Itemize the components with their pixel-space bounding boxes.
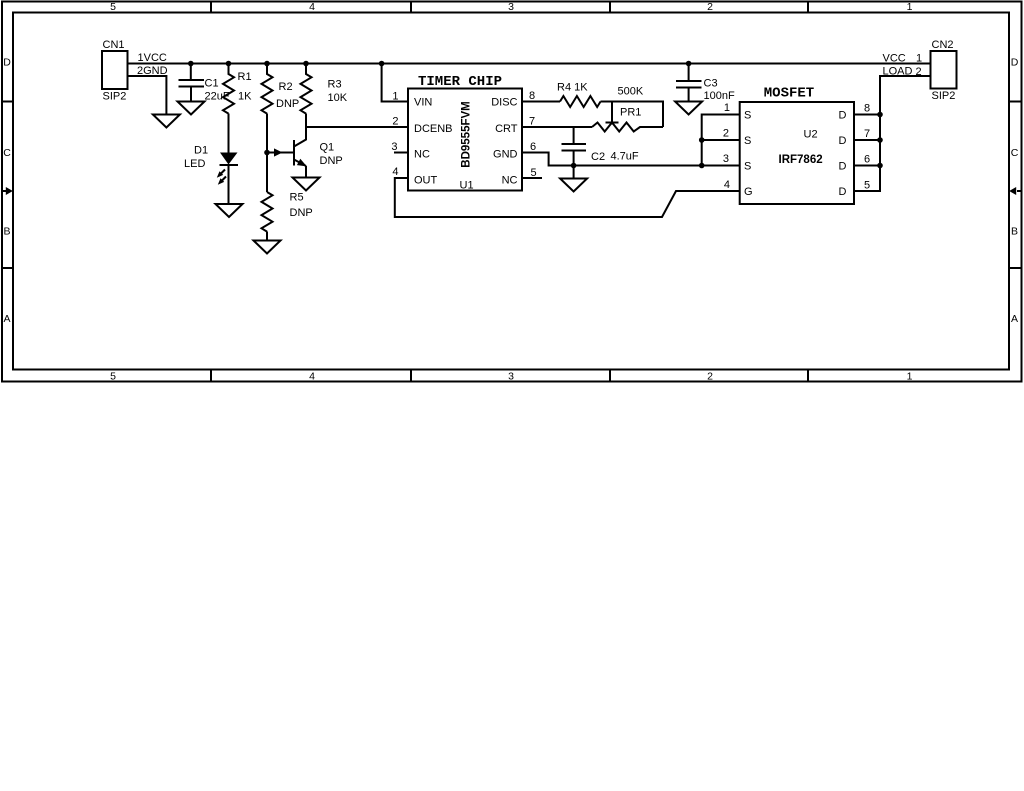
svg-text:1: 1 xyxy=(916,53,922,65)
svg-text:TIMER CHIP: TIMER CHIP xyxy=(418,74,502,90)
svg-text:D: D xyxy=(839,110,847,122)
svg-text:2: 2 xyxy=(707,1,713,13)
junction VCC / C3 xyxy=(686,61,692,67)
svg-text:BD9555FVM: BD9555FVM xyxy=(461,101,473,167)
svg-text:3: 3 xyxy=(723,153,729,165)
svg-text:D1: D1 xyxy=(194,145,208,157)
wire VCC rail xyxy=(128,63,931,65)
svg-text:B: B xyxy=(1011,226,1018,238)
svg-text:1: 1 xyxy=(907,371,913,383)
svg-text:2: 2 xyxy=(916,66,922,78)
wire source net to U2 xyxy=(574,165,702,167)
svg-text:C: C xyxy=(3,147,11,159)
junction node Q1 base xyxy=(264,150,270,156)
svg-text:1: 1 xyxy=(392,91,398,103)
svg-text:4: 4 xyxy=(724,179,730,191)
wire U1 OUT to U2 gate xyxy=(395,178,740,217)
svg-text:MOSFET: MOSFET xyxy=(764,86,814,102)
svg-text:5: 5 xyxy=(110,371,116,383)
svg-text:1VCC: 1VCC xyxy=(138,52,167,64)
wire R4 to PR1 top rail xyxy=(601,102,664,128)
svg-text:VCC: VCC xyxy=(883,53,906,65)
wire VCC to U1 pin 1 VIN xyxy=(382,64,408,102)
ground at C1 xyxy=(178,102,205,115)
junction source bus pin 3 xyxy=(699,163,705,169)
resistor R2 xyxy=(262,64,273,114)
svg-text:B: B xyxy=(3,226,10,238)
svg-text:DNP: DNP xyxy=(320,155,343,167)
capacitor C2 xyxy=(562,127,587,166)
connector CN2 xyxy=(931,39,957,102)
svg-text:A: A xyxy=(1011,313,1018,325)
svg-text:U1: U1 xyxy=(460,180,474,192)
ground GND at CN1 xyxy=(153,115,180,128)
wire U2 pin 6 stub xyxy=(854,165,880,167)
svg-text:VIN: VIN xyxy=(414,97,432,109)
IC U2 MOSFET box xyxy=(740,102,854,204)
wire R5 to ground xyxy=(266,232,268,241)
capacitor C1 xyxy=(179,64,205,102)
ground at Q1 emitter xyxy=(293,178,320,191)
svg-text:R4 1K: R4 1K xyxy=(557,82,588,94)
svg-text:Q1: Q1 xyxy=(320,142,335,154)
svg-text:DISC: DISC xyxy=(491,97,517,109)
svg-text:R1: R1 xyxy=(238,71,252,83)
svg-text:22uF: 22uF xyxy=(205,91,230,103)
junction source bus pin 2 xyxy=(699,137,705,143)
svg-text:3: 3 xyxy=(508,1,514,13)
wire U2 source bus xyxy=(702,115,740,166)
svg-text:6: 6 xyxy=(530,141,536,153)
svg-text:D: D xyxy=(839,161,847,173)
ground at D1 xyxy=(216,204,243,217)
svg-text:4: 4 xyxy=(392,166,398,178)
svg-text:C1: C1 xyxy=(205,78,219,90)
connector CN1 xyxy=(102,39,128,103)
svg-text:D: D xyxy=(839,135,847,147)
resistor R4 xyxy=(560,96,601,107)
svg-text:5: 5 xyxy=(864,180,870,192)
svg-text:DNP: DNP xyxy=(276,98,299,110)
svg-text:LED: LED xyxy=(184,158,205,170)
wire base node down to R5 xyxy=(266,153,268,193)
junction drain bus pin 8 xyxy=(877,112,883,118)
svg-text:SIP2: SIP2 xyxy=(932,90,956,102)
svg-text:S: S xyxy=(744,110,751,122)
wire R3 / Q1 collector to U1 DCENB xyxy=(306,114,408,128)
svg-text:3: 3 xyxy=(508,371,514,383)
junction node C2 / GND net xyxy=(571,163,577,169)
junction VCC / U1 VIN xyxy=(379,61,385,67)
IC U1 timer chip box xyxy=(408,89,522,191)
junction VCC / R2 xyxy=(264,61,270,67)
svg-text:GND: GND xyxy=(493,149,518,161)
wire LOAD to CN2 pin 2 xyxy=(880,76,931,115)
svg-text:NC: NC xyxy=(502,175,518,187)
svg-text:4: 4 xyxy=(309,1,315,13)
wire U1 CRT to PR1 xyxy=(522,126,592,128)
junction VCC / C1 xyxy=(188,61,194,67)
svg-text:OUT: OUT xyxy=(414,175,438,187)
svg-text:DNP: DNP xyxy=(290,207,313,219)
transistor Q1 xyxy=(267,127,307,178)
svg-text:1: 1 xyxy=(724,102,730,114)
wire R1 to D1 xyxy=(228,114,230,153)
svg-text:NC: NC xyxy=(414,149,430,161)
svg-text:R2: R2 xyxy=(279,81,293,93)
U1 pin 5 NC stub xyxy=(522,177,542,179)
ground at R5 xyxy=(254,241,281,254)
svg-text:G: G xyxy=(744,186,753,198)
junction VCC / R1 xyxy=(226,61,232,67)
U1 pin 3 NC stub xyxy=(394,152,408,154)
svg-text:SIP2: SIP2 xyxy=(103,91,127,103)
svg-text:IRF7862: IRF7862 xyxy=(779,154,823,166)
resistor R1 xyxy=(223,64,234,114)
junction drain bus pin 6 xyxy=(877,163,883,169)
svg-text:S: S xyxy=(744,135,751,147)
wire U1 GND to source node xyxy=(522,153,574,166)
svg-text:U2: U2 xyxy=(804,129,818,141)
wire U1 DISC to R4 xyxy=(522,101,560,103)
svg-text:A: A xyxy=(3,313,10,325)
svg-text:10K: 10K xyxy=(328,92,348,104)
svg-text:LOAD: LOAD xyxy=(883,66,913,78)
svg-text:CN2: CN2 xyxy=(932,39,954,51)
svg-text:5: 5 xyxy=(110,1,116,13)
svg-text:7: 7 xyxy=(864,128,870,140)
wire U2 drain bus xyxy=(854,115,880,192)
svg-text:500K: 500K xyxy=(618,86,644,98)
svg-text:6: 6 xyxy=(864,154,870,166)
LED D1 xyxy=(217,153,238,185)
svg-text:3: 3 xyxy=(391,141,397,153)
ground at C3 xyxy=(675,102,702,115)
svg-text:CRT: CRT xyxy=(495,123,518,135)
svg-text:1K: 1K xyxy=(238,91,252,103)
junction VCC / R3 xyxy=(303,61,309,67)
svg-text:4: 4 xyxy=(309,371,315,383)
svg-text:C: C xyxy=(1011,147,1019,159)
svg-text:100nF: 100nF xyxy=(704,90,735,102)
svg-text:1: 1 xyxy=(907,1,913,13)
svg-text:2: 2 xyxy=(723,128,729,140)
svg-text:C2: C2 xyxy=(591,151,605,163)
svg-text:2: 2 xyxy=(392,116,398,128)
svg-text:8: 8 xyxy=(864,103,870,115)
svg-text:D: D xyxy=(839,186,847,198)
wire R2 to Q1 base node xyxy=(266,114,268,153)
svg-text:D: D xyxy=(3,57,11,69)
svg-text:PR1: PR1 xyxy=(620,107,641,119)
svg-text:D: D xyxy=(1011,57,1019,69)
svg-text:C3: C3 xyxy=(704,78,718,90)
capacitor C3 xyxy=(676,64,702,102)
wire CN1 pin 2 to ground xyxy=(128,76,167,115)
wire U2 pin 7 stub xyxy=(854,139,880,141)
svg-text:R3: R3 xyxy=(328,79,342,91)
potentiometer PR1 xyxy=(592,102,663,132)
wire D1 to ground xyxy=(228,165,230,204)
resistor R3 xyxy=(301,64,312,114)
resistor R5 xyxy=(262,192,273,232)
junction drain bus pin 7 xyxy=(877,137,883,143)
svg-text:R5: R5 xyxy=(290,192,304,204)
svg-text:S: S xyxy=(744,161,751,173)
svg-text:2: 2 xyxy=(707,371,713,383)
ground at C2 xyxy=(560,166,587,192)
svg-text:DCENB: DCENB xyxy=(414,123,453,135)
svg-text:CN1: CN1 xyxy=(103,39,125,51)
svg-text:7: 7 xyxy=(529,116,535,128)
svg-text:8: 8 xyxy=(529,90,535,102)
wire U2 pin 2 stub xyxy=(702,139,740,141)
svg-text:4.7uF: 4.7uF xyxy=(611,151,639,163)
